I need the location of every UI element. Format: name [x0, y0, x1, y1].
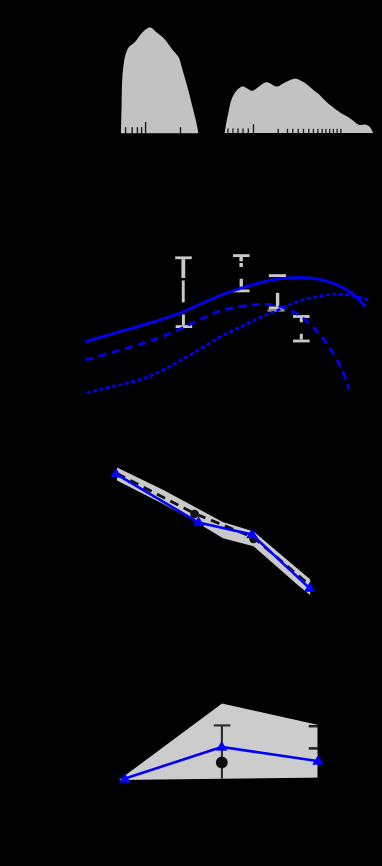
panel 3: blue triangle markers	[110, 468, 315, 592]
panel 3: grey confidence band	[117, 468, 310, 596]
panel 4: blue line	[125, 747, 318, 779]
panel 2: error bar 3	[269, 274, 286, 309]
panel 2: error bar 4	[293, 315, 310, 342]
panel 4: centre error bar	[214, 725, 231, 778]
panel 1: left density silhouette	[121, 27, 198, 133]
panel 2: error bar 1	[175, 256, 192, 328]
panel 2: error bar 2	[233, 254, 250, 292]
panel 2: error bar 3 darker lower cap	[268, 309, 285, 311]
panel 3: black dot at point 3	[249, 535, 258, 544]
panel 3: black dot at point 2	[190, 510, 199, 519]
panel 4: grey region polygon	[119, 704, 318, 781]
panel 1: right density rug ticks	[228, 124, 341, 133]
panel 2: dotted blue curve	[88, 294, 369, 392]
panel 1: left density rug ticks	[126, 122, 181, 134]
panel 2: dashed blue curve	[86, 304, 349, 390]
panel 4: blue triangle markers	[119, 741, 324, 783]
panel 3: blue line	[116, 474, 310, 588]
panel 2: solid blue curve	[85, 277, 366, 342]
panel 4: right error bar	[309, 726, 318, 748]
panel 1: right density silhouette	[225, 79, 374, 133]
panel 3: black dashed center line	[117, 474, 310, 586]
panel 4: black dot	[216, 757, 228, 769]
